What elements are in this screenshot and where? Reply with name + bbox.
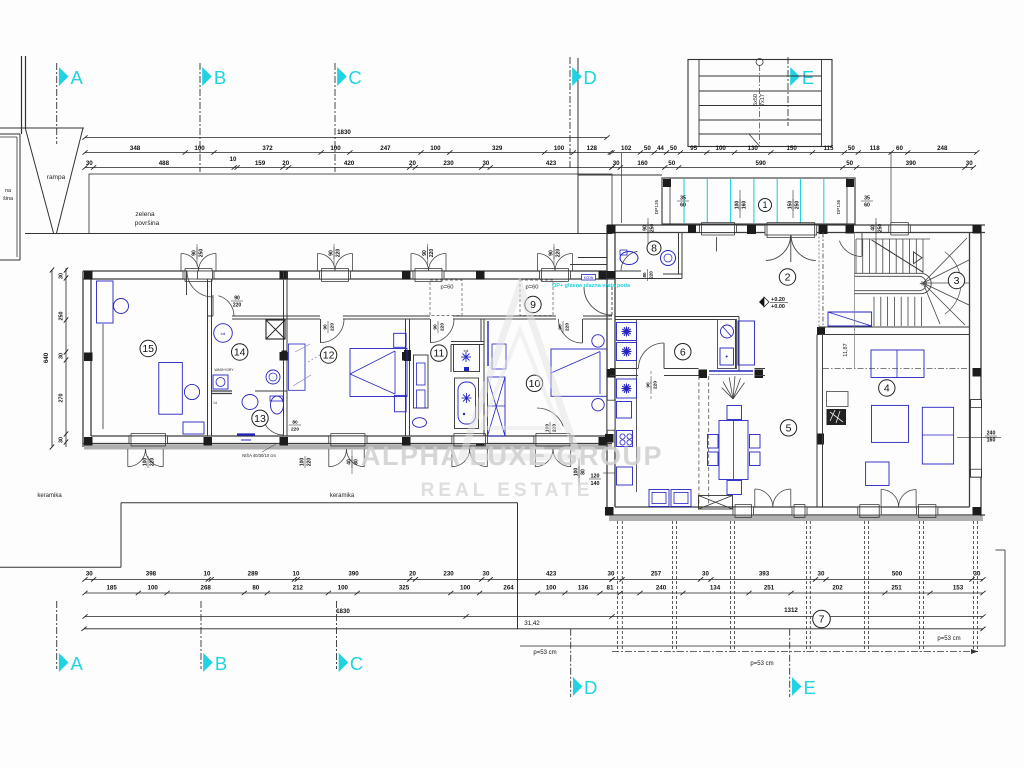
plant symbol: [722, 376, 745, 399]
svg-text:A: A: [71, 653, 84, 674]
svg-text:+0.20: +0.20: [771, 297, 785, 303]
section marker B: [199, 63, 201, 172]
svg-text:p=53 cm: p=53 cm: [750, 661, 773, 667]
section marker D: [569, 57, 571, 170]
svg-text:10: 10: [293, 571, 300, 578]
svg-text:30: 30: [86, 160, 93, 167]
small dims beside terrace: [643, 222, 656, 234]
svg-text:3: 3: [954, 275, 960, 287]
svg-text:220: 220: [291, 426, 299, 432]
dim row B top-right: [612, 167, 973, 169]
door room8: [621, 251, 638, 271]
svg-text:površina: površina: [135, 220, 160, 227]
svg-text:100: 100: [338, 585, 349, 592]
svg-text:14: 14: [234, 347, 246, 359]
svg-text:p=60: p=60: [525, 285, 538, 291]
svg-text:202: 202: [832, 585, 843, 592]
wall 12|11: [405, 319, 407, 436]
sliding door blue sill kitchen->5: [709, 370, 753, 372]
niche dims above top doors: [329, 247, 342, 259]
bottom wall openings right wing: [733, 507, 754, 515]
dim row A top-right: [612, 152, 977, 154]
svg-text:12: 12: [323, 350, 335, 362]
svg-text:E: E: [802, 67, 814, 88]
svg-text:10: 10: [204, 571, 211, 578]
bottom section marker B: [200, 601, 202, 669]
svg-text:D: D: [584, 677, 597, 698]
dim row1 bottom-left: [85, 578, 612, 580]
room12 bed: [350, 349, 407, 397]
svg-text:keramika: keramika: [37, 493, 62, 499]
svg-text:50: 50: [670, 145, 677, 152]
svg-text:80: 80: [642, 272, 647, 278]
door room11 bottom: [537, 408, 563, 426]
svg-text:40: 40: [871, 225, 877, 231]
room14 fixtures: [214, 324, 233, 343]
svg-text:tuš: tuš: [221, 332, 226, 336]
zelena povrsina band: [89, 174, 612, 234]
room number 12: [320, 347, 336, 363]
svg-text:90: 90: [646, 382, 652, 388]
svg-text:p=60: p=60: [440, 285, 453, 291]
svg-text:250: 250: [795, 201, 801, 210]
svg-text:250: 250: [199, 249, 205, 258]
room number 7: [813, 610, 831, 628]
window left wall right wing: [607, 400, 615, 430]
svg-text:500: 500: [892, 571, 903, 578]
svg-text:390: 390: [348, 571, 359, 578]
svg-text:20: 20: [409, 160, 416, 167]
rampa funnel: [26, 129, 54, 233]
blue wedge under stairs: [828, 312, 872, 326]
bottom wall sills and outside door arcs: [129, 436, 168, 444]
wall 5|4: [816, 335, 818, 508]
svg-text:6: 6: [680, 346, 686, 358]
svg-text:35: 35: [864, 196, 870, 202]
svg-text:50: 50: [668, 160, 675, 167]
svg-text:100: 100: [143, 458, 149, 467]
svg-text:B: B: [214, 67, 226, 88]
svg-text:488: 488: [159, 160, 170, 167]
gray edge band right wing: [609, 516, 983, 521]
svg-text:DP135: DP135: [654, 199, 660, 214]
section marker E: [787, 57, 789, 126]
room13 fixtures: [242, 395, 258, 410]
svg-text:160: 160: [637, 160, 648, 167]
bottom section marker C: [336, 601, 338, 669]
room10 bed: [551, 349, 607, 396]
level symbol +0.20: [759, 297, 764, 307]
svg-text:100: 100: [330, 145, 341, 152]
dining table: [719, 421, 748, 480]
kitchen right counter: [718, 320, 737, 369]
room number 10: [526, 375, 542, 391]
svg-text:50: 50: [848, 145, 855, 152]
shower tus: [454, 345, 480, 372]
dim row A top-left: [85, 152, 610, 154]
svg-text:10: 10: [230, 156, 237, 163]
svg-text:100: 100: [300, 458, 306, 467]
svg-text:30: 30: [702, 571, 709, 578]
kitchen bottom wall: [610, 368, 638, 370]
svg-text:160: 160: [742, 201, 748, 210]
svg-text:90: 90: [643, 225, 649, 231]
svg-text:8: 8: [651, 243, 657, 255]
stairs lower flight: [873, 297, 875, 326]
dashed partition 5: [698, 376, 700, 507]
svg-text:100: 100: [554, 145, 565, 152]
line p53: [520, 645, 1005, 647]
burners asterisks: [622, 327, 632, 337]
svg-text:30: 30: [818, 571, 825, 578]
right wall window: [971, 400, 982, 478]
svg-text:5: 5: [786, 422, 792, 434]
armchairs: [872, 405, 909, 442]
svg-text:240: 240: [987, 431, 996, 437]
svg-text:DP136: DP136: [836, 199, 842, 214]
room8 WC: [607, 278, 682, 280]
svg-text:REAL ESTATE: REAL ESTATE: [421, 480, 594, 501]
door room13: [264, 421, 284, 435]
corridor end door to hall: [611, 287, 613, 316]
svg-text:590: 590: [756, 160, 767, 167]
svg-text:329: 329: [492, 145, 503, 152]
door room14: [218, 296, 234, 316]
svg-text:134: 134: [710, 585, 721, 592]
svg-text:30: 30: [613, 160, 620, 167]
svg-text:KCDN: KCDN: [584, 276, 594, 280]
svg-text:160: 160: [987, 438, 996, 444]
svg-text:100: 100: [546, 585, 557, 592]
svg-text:220: 220: [439, 323, 445, 331]
door room15 ext: [186, 271, 188, 295]
room number 11: [431, 345, 447, 361]
svg-text:220: 220: [150, 458, 156, 467]
svg-text:325: 325: [399, 585, 410, 592]
svg-text:100: 100: [460, 585, 471, 592]
sofa top: [871, 350, 924, 378]
block 14/13 right wall: [283, 271, 285, 436]
door room11: [430, 319, 432, 343]
svg-text:30: 30: [608, 571, 615, 578]
svg-text:372: 372: [262, 145, 273, 152]
svg-text:264: 264: [503, 585, 514, 592]
svg-text:WASH+DRY: WASH+DRY: [214, 368, 234, 372]
svg-text:A: A: [71, 67, 84, 88]
svg-text:20: 20: [409, 571, 416, 578]
svg-text:7x17: 7x17: [760, 94, 766, 106]
section marker A: [56, 63, 58, 144]
svg-text:348: 348: [130, 145, 141, 152]
svg-text:100: 100: [194, 145, 205, 152]
svg-text:zelena: zelena: [135, 211, 155, 218]
svg-text:393: 393: [759, 571, 770, 578]
stairs upper flight: [855, 239, 857, 273]
svg-text:220: 220: [233, 303, 242, 309]
door room10: [582, 319, 584, 343]
columns right wing: [607, 225, 616, 234]
svg-text:270: 270: [59, 394, 65, 403]
room number 13: [252, 410, 268, 426]
svg-text:220: 220: [556, 249, 562, 258]
entry double door room2: [765, 225, 817, 235]
corridor p=60 dashed wardrobes: [430, 280, 462, 316]
svg-text:212: 212: [293, 585, 304, 592]
svg-text:81: 81: [607, 585, 614, 592]
section marker C: [334, 63, 336, 172]
kitchen top wall: [615, 316, 739, 318]
svg-text:31,42: 31,42: [524, 620, 540, 627]
svg-text:40: 40: [347, 459, 353, 465]
room number 6: [675, 344, 691, 360]
svg-text:14: 14: [213, 401, 217, 405]
svg-text:250: 250: [59, 312, 65, 321]
svg-text:šina: šina: [3, 196, 14, 202]
room number 3: [948, 272, 964, 288]
svg-text:30: 30: [59, 273, 65, 279]
svg-text:420: 420: [344, 160, 355, 167]
bath block room11: [451, 341, 484, 343]
svg-text:30: 30: [966, 160, 973, 167]
fireplace: [827, 409, 847, 425]
svg-text:OP+ glavna ulazna vrata poda: OP+ glavna ulazna vrata poda: [552, 283, 631, 289]
bathtub: [455, 378, 479, 429]
svg-text:50: 50: [846, 160, 853, 167]
terrace room 1 cyan hatch: [662, 178, 855, 224]
svg-text:120: 120: [591, 474, 600, 480]
svg-text:60: 60: [864, 203, 870, 209]
left counter lower part: [617, 402, 632, 419]
winder radial lines: [923, 238, 967, 283]
dim row2 bottom: [85, 592, 538, 594]
vent shaft box: [266, 320, 285, 339]
pergola dashed posts: [617, 521, 619, 652]
room12 wardrobe: [414, 355, 429, 408]
svg-text:30: 30: [483, 571, 490, 578]
dash-dot overhang line: [823, 368, 969, 370]
svg-text:220: 220: [564, 323, 570, 331]
svg-text:C: C: [350, 653, 363, 674]
svg-text:423: 423: [546, 160, 557, 167]
site wall top-left double line: [21, 56, 23, 134]
horizontal site line: [0, 127, 84, 129]
svg-text:50: 50: [644, 145, 651, 152]
svg-text:230: 230: [443, 571, 454, 578]
svg-text:E: E: [804, 677, 816, 698]
room number 14: [232, 344, 248, 360]
svg-text:398: 398: [146, 571, 157, 578]
arrow: [914, 252, 923, 264]
svg-text:D: D: [583, 67, 596, 88]
svg-text:423: 423: [546, 571, 557, 578]
svg-text:220: 220: [652, 381, 658, 389]
svg-text:118: 118: [870, 145, 881, 152]
svg-text:150: 150: [788, 201, 794, 210]
svg-text:185: 185: [106, 585, 117, 592]
dim total 1830 top: [85, 137, 607, 139]
handrail U: [854, 273, 931, 293]
svg-text:35: 35: [680, 196, 686, 202]
svg-text:289: 289: [248, 571, 259, 578]
svg-text:90: 90: [433, 324, 439, 330]
svg-text:30: 30: [59, 437, 65, 443]
stair room boundary: [822, 233, 824, 328]
svg-text:7: 7: [819, 614, 825, 626]
svg-text:640: 640: [43, 352, 50, 363]
svg-text:1830: 1830: [337, 129, 351, 136]
svg-text:1312: 1312: [784, 607, 798, 614]
dim row B top-left: [85, 167, 612, 169]
svg-text:90: 90: [549, 250, 555, 256]
right wing outer walls: [607, 224, 985, 226]
room number 1: [759, 199, 772, 212]
top wall window sills + door arcs (outside, pointing up): [183, 271, 214, 279]
gray terrace edge band left wing: [84, 445, 612, 450]
svg-text:390: 390: [906, 160, 917, 167]
svg-text:60: 60: [896, 145, 903, 152]
totals bottom: [85, 616, 612, 618]
dim row2 bottom-right: [612, 592, 983, 594]
svg-text:30: 30: [59, 353, 65, 359]
door room12: [320, 319, 322, 343]
svg-text:115: 115: [823, 145, 834, 152]
svg-text:13: 13: [254, 413, 266, 425]
kitchen island blue: [738, 321, 755, 365]
svg-text:80: 80: [252, 585, 259, 592]
svg-text:257: 257: [651, 571, 662, 578]
svg-text:6x50: 6x50: [753, 94, 759, 106]
svg-text:1: 1: [762, 200, 767, 210]
svg-text:90: 90: [192, 250, 198, 256]
svg-text:102: 102: [621, 145, 632, 152]
svg-text:230: 230: [443, 160, 454, 167]
stair cut diagonal: [872, 240, 924, 272]
left wing outer walls: [83, 270, 607, 272]
corridor wall y316: [208, 315, 214, 317]
room number 4: [879, 380, 895, 396]
bottom section marker D: [570, 629, 572, 697]
svg-text:90: 90: [323, 324, 329, 330]
svg-text:30: 30: [86, 571, 93, 578]
threshold room15 door: [198, 271, 213, 279]
svg-text:240: 240: [656, 585, 667, 592]
svg-text:rampa: rampa: [47, 174, 66, 181]
columns left wing: [84, 271, 93, 280]
left site rectangle: [0, 133, 20, 135]
vent shaft 10 (X): [488, 377, 506, 436]
glass partition room10: [487, 321, 489, 366]
svg-text:220: 220: [429, 249, 435, 258]
room number 5: [780, 420, 796, 436]
svg-text:251: 251: [764, 585, 775, 592]
svg-text:130: 130: [748, 145, 759, 152]
svg-text:247: 247: [380, 145, 391, 152]
svg-text:1830: 1830: [336, 608, 350, 615]
svg-text:251: 251: [891, 585, 902, 592]
svg-text:11,87: 11,87: [843, 343, 849, 356]
exterior stairs top: [688, 60, 832, 147]
bottom terrace outline: [0, 566, 121, 568]
room number 9: [525, 296, 541, 312]
svg-text:NIŠA 40/30/10 cm: NIŠA 40/30/10 cm: [242, 453, 276, 458]
svg-text:220: 220: [336, 249, 342, 258]
svg-text:44: 44: [657, 145, 664, 152]
svg-text:220: 220: [649, 271, 654, 279]
svg-text:150: 150: [786, 145, 797, 152]
svg-text:90: 90: [234, 296, 240, 302]
svg-text:na: na: [5, 188, 12, 194]
watermark logo A: [462, 286, 578, 457]
room number 8: [647, 241, 661, 255]
svg-text:100: 100: [430, 145, 441, 152]
dim stub verticals: [621, 153, 623, 223]
svg-text:90: 90: [329, 250, 335, 256]
svg-text:p=53 cm: p=53 cm: [533, 650, 556, 656]
svg-text:keramika: keramika: [330, 493, 355, 499]
svg-text:30: 30: [482, 160, 489, 167]
line 31,42: [84, 628, 983, 630]
pergola dash-dot bottom line: [612, 651, 978, 653]
blue sill room13: [237, 433, 255, 435]
svg-text:268: 268: [201, 585, 212, 592]
bottom section marker E: [789, 629, 791, 697]
cyan label glavna vrata: [582, 275, 596, 281]
svg-text:C: C: [348, 67, 361, 88]
svg-text:153: 153: [953, 585, 964, 592]
svg-text:11: 11: [433, 348, 444, 360]
bottom section marker A: [56, 601, 58, 669]
svg-text:128: 128: [587, 145, 598, 152]
svg-text:100: 100: [735, 201, 741, 210]
svg-text:159: 159: [255, 160, 266, 167]
svg-text:100: 100: [716, 145, 727, 152]
vertical line right of zelena: [577, 58, 579, 233]
left vertical dim chain: [51, 270, 53, 447]
svg-text:+0.00: +0.00: [771, 304, 785, 310]
svg-text:220: 220: [329, 323, 335, 331]
svg-text:4: 4: [884, 383, 890, 395]
bottom counter room5: [649, 490, 669, 507]
kitchen door arc: [663, 343, 665, 369]
svg-text:p=53 cm: p=53 cm: [937, 636, 960, 642]
svg-text:2: 2: [785, 272, 791, 284]
svg-text:B: B: [215, 653, 227, 674]
room number 15: [140, 340, 156, 356]
svg-text:248: 248: [937, 145, 948, 152]
svg-text:136: 136: [578, 585, 589, 592]
top wall openings right wing: [700, 225, 737, 233]
svg-text:80: 80: [292, 420, 298, 426]
room number 2: [779, 269, 795, 285]
svg-text:20: 20: [282, 160, 289, 167]
X box bottom: [699, 496, 733, 510]
dim row1 bottom-right: [612, 578, 983, 580]
svg-text:15: 15: [142, 343, 154, 355]
wall room15 right: [207, 279, 209, 436]
svg-text:100: 100: [148, 585, 159, 592]
svg-text:90: 90: [558, 324, 564, 330]
block 14/13 divider y391: [212, 390, 233, 392]
svg-text:ALPHA LUXE GROUP: ALPHA LUXE GROUP: [361, 441, 663, 471]
svg-text:220: 220: [307, 458, 313, 467]
svg-text:80: 80: [354, 459, 360, 465]
svg-text:90: 90: [422, 250, 428, 256]
room15 furniture: [97, 281, 114, 323]
svg-text:60: 60: [680, 203, 686, 209]
door top-right room2 wing: [839, 241, 862, 257]
svg-text:95: 95: [690, 145, 697, 152]
kitchen left counter: [636, 320, 638, 493]
